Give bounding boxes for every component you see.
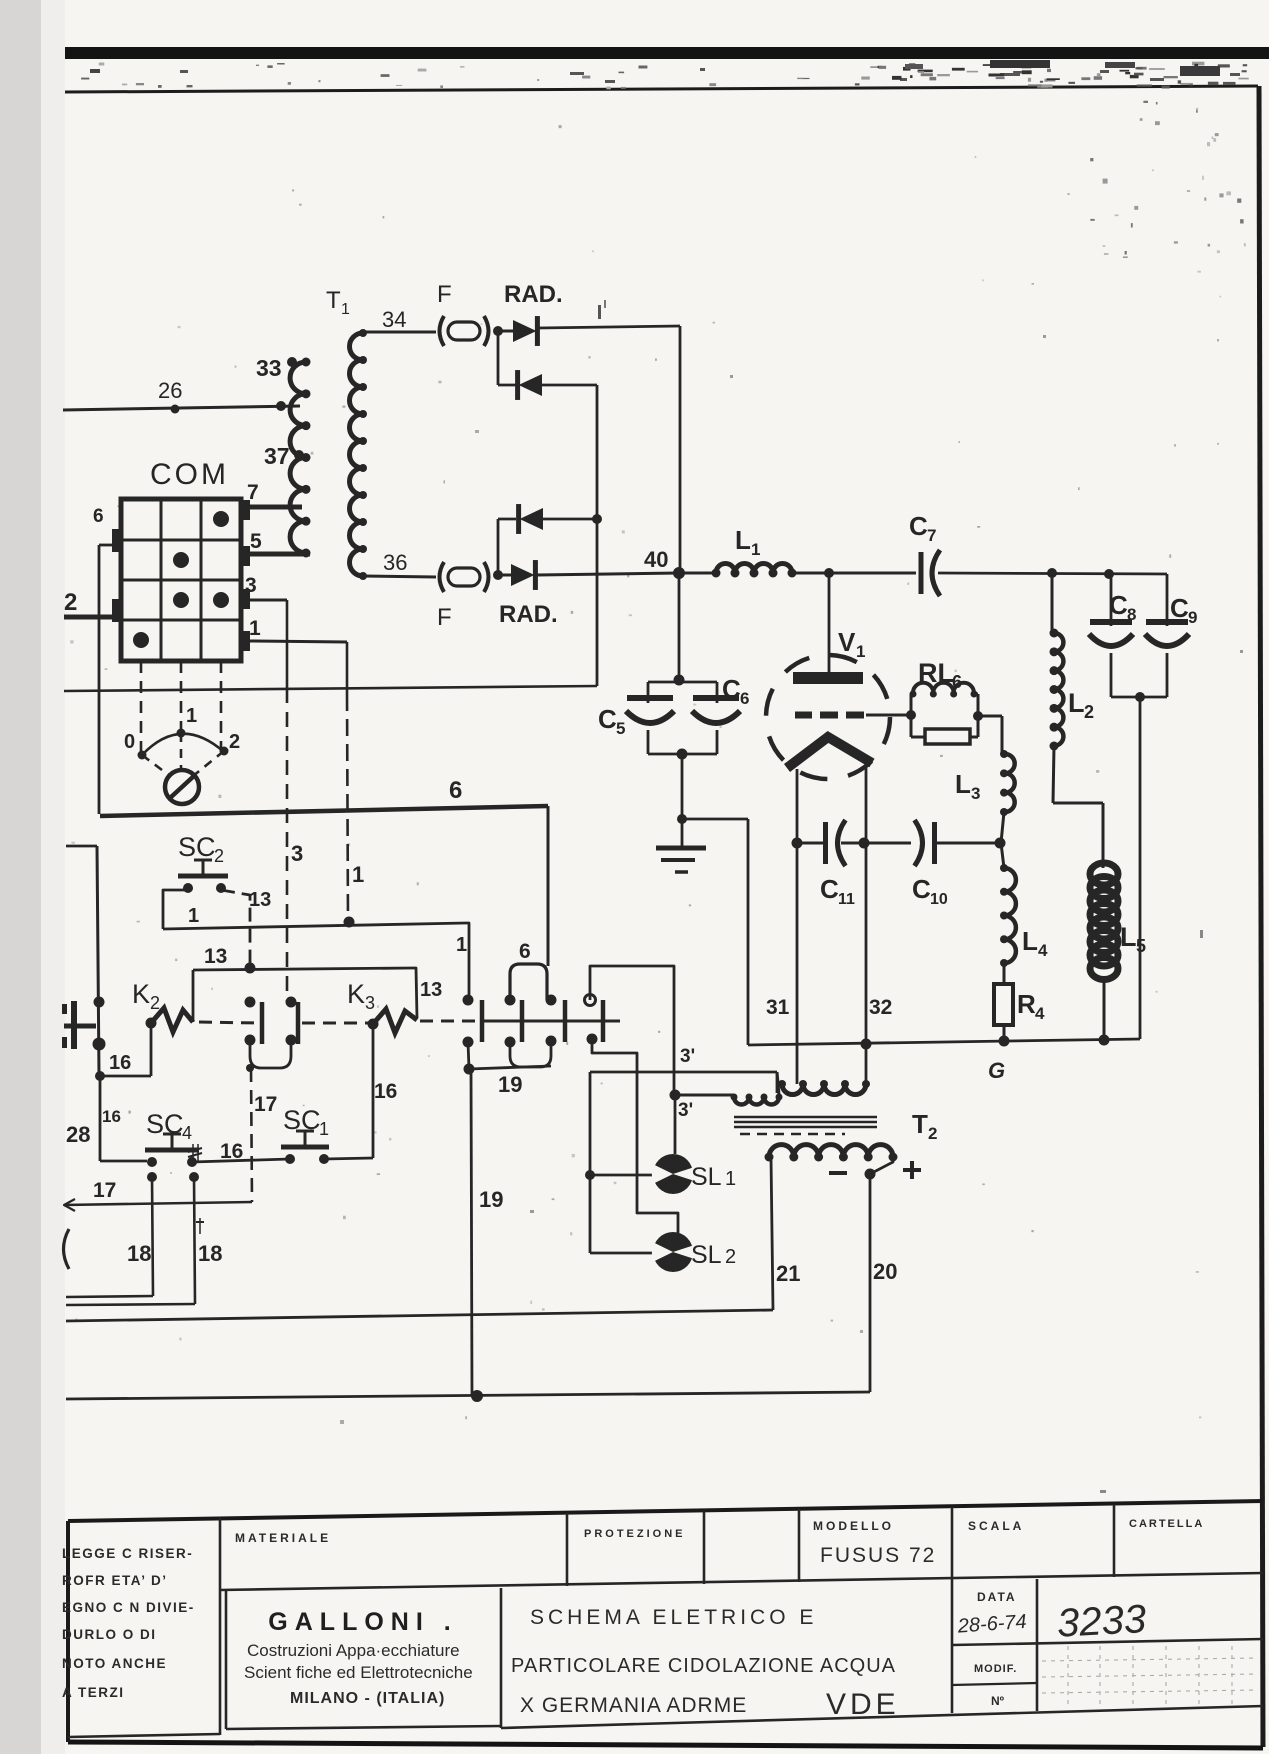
svg-text:1: 1 [751, 540, 760, 559]
svg-text:2: 2 [229, 731, 240, 753]
svg-text:1: 1 [186, 705, 197, 727]
svg-text:1: 1 [319, 1119, 329, 1139]
svg-text:31: 31 [766, 996, 790, 1019]
svg-text:1: 1 [341, 301, 350, 318]
svg-text:PROTEZIONE: PROTEZIONE [584, 1528, 686, 1540]
svg-text:L: L [735, 525, 751, 555]
svg-text:6: 6 [740, 689, 749, 708]
svg-text:19: 19 [479, 1187, 503, 1212]
svg-text:RAD.: RAD. [499, 601, 558, 628]
svg-text:5: 5 [616, 719, 625, 738]
svg-text:T: T [326, 287, 341, 314]
svg-text:34: 34 [382, 307, 406, 332]
svg-text:7: 7 [927, 526, 936, 545]
svg-text:36: 36 [383, 550, 407, 575]
svg-text:16: 16 [374, 1080, 397, 1103]
svg-text:A TERZI: A TERZI [62, 1685, 125, 1700]
svg-text:28: 28 [66, 1122, 90, 1147]
svg-text:3233: 3233 [1056, 1597, 1147, 1646]
svg-text:K: K [347, 979, 365, 1009]
svg-text:32: 32 [869, 996, 892, 1019]
svg-text:1: 1 [456, 934, 467, 956]
svg-text:20: 20 [873, 1259, 897, 1284]
svg-text:LEGGE C RISER-: LEGGE C RISER- [62, 1546, 193, 1561]
svg-text:3: 3 [971, 784, 980, 803]
svg-text:F: F [437, 604, 452, 631]
svg-text:6: 6 [449, 777, 462, 804]
svg-text:11: 11 [838, 891, 855, 908]
svg-text:SCALA: SCALA [968, 1519, 1024, 1533]
svg-text:SCHEMA ELETRICO E: SCHEMA ELETRICO E [530, 1606, 817, 1629]
svg-text:8: 8 [1127, 605, 1136, 624]
svg-text:2: 2 [928, 1124, 937, 1143]
svg-text:2: 2 [1084, 702, 1094, 722]
svg-text:17: 17 [254, 1093, 277, 1116]
svg-text:3': 3' [678, 1100, 693, 1121]
svg-text:6: 6 [952, 672, 962, 692]
svg-text:9: 9 [1188, 608, 1197, 627]
svg-text:V: V [838, 627, 856, 657]
svg-text:RAD.: RAD. [504, 281, 563, 308]
svg-text:RL: RL [918, 658, 954, 688]
svg-text:37: 37 [264, 443, 290, 469]
svg-text:3: 3 [291, 841, 303, 866]
svg-text:40: 40 [644, 547, 668, 572]
svg-text:C: C [598, 704, 617, 734]
svg-text:Scient fiche ed Elettrotecnich: Scient fiche ed Elettrotecniche [244, 1663, 473, 1682]
svg-text:2: 2 [150, 993, 160, 1013]
svg-text:Costruzioni Appa·ecchiature: Costruzioni Appa·ecchiature [247, 1641, 460, 1660]
svg-text:GALLONI .: GALLONI . [268, 1608, 457, 1636]
svg-text:SC: SC [178, 832, 216, 862]
svg-text:19: 19 [498, 1072, 522, 1097]
svg-text:13: 13 [420, 979, 442, 1001]
svg-text:4: 4 [182, 1123, 192, 1143]
svg-text:C: C [1170, 593, 1189, 623]
svg-text:3: 3 [245, 574, 257, 597]
svg-text:MILANO - (ITALIA): MILANO - (ITALIA) [290, 1690, 445, 1707]
svg-text:CARTELLA: CARTELLA [1129, 1518, 1204, 1530]
svg-text:MODIF.: MODIF. [974, 1663, 1017, 1675]
svg-text:FUSUS 72: FUSUS 72 [820, 1544, 936, 1567]
svg-text:L: L [1120, 922, 1137, 952]
svg-text:2: 2 [64, 589, 77, 616]
svg-text:COM: COM [150, 458, 229, 491]
svg-text:16: 16 [102, 1107, 121, 1126]
svg-text:10: 10 [930, 891, 948, 908]
svg-text:1: 1 [725, 1168, 736, 1190]
svg-text:4: 4 [1035, 1004, 1045, 1023]
svg-text:C: C [909, 511, 928, 541]
svg-text:R: R [1017, 989, 1036, 1019]
svg-text:5: 5 [1136, 936, 1146, 956]
svg-text:6: 6 [93, 506, 104, 527]
svg-text:33: 33 [256, 355, 282, 381]
svg-text:13: 13 [204, 945, 227, 968]
svg-text:21: 21 [776, 1261, 800, 1286]
svg-text:13: 13 [249, 889, 271, 911]
svg-text:2: 2 [214, 846, 224, 866]
svg-text:C: C [912, 874, 931, 904]
svg-text:4: 4 [1038, 941, 1048, 960]
svg-text:MATERIALE: MATERIALE [235, 1531, 331, 1545]
svg-text:Nº: Nº [991, 1694, 1005, 1708]
svg-text:G: G [988, 1058, 1005, 1083]
svg-text:3: 3 [365, 993, 375, 1013]
svg-text:NOTO ANCHE: NOTO ANCHE [62, 1656, 167, 1671]
svg-text:T: T [912, 1109, 928, 1139]
svg-text:L: L [1068, 688, 1085, 718]
svg-text:MODELLO: MODELLO [813, 1519, 894, 1533]
svg-text:VDE: VDE [826, 1688, 900, 1721]
svg-text:3': 3' [680, 1046, 695, 1067]
svg-text:DATA: DATA [977, 1590, 1017, 1604]
svg-text:C: C [820, 874, 839, 904]
svg-text:18: 18 [127, 1241, 151, 1266]
svg-text:ROFR ETA’ D’: ROFR ETA’ D’ [62, 1573, 168, 1588]
svg-text:7: 7 [247, 481, 259, 504]
svg-text:5: 5 [250, 530, 262, 553]
svg-text:SL: SL [691, 1241, 722, 1269]
svg-text:DURLO O DI: DURLO O DI [62, 1627, 157, 1642]
svg-text:26: 26 [158, 378, 182, 403]
svg-text:1: 1 [249, 617, 261, 640]
svg-text:K: K [132, 979, 150, 1009]
svg-text:EGNO C N DIVIE-: EGNO C N DIVIE- [62, 1600, 195, 1615]
svg-text:18: 18 [198, 1241, 222, 1266]
svg-text:PARTICOLARE CIDOLAZIONE ACQU: PARTICOLARE CIDOLAZIONE ACQUA [511, 1655, 896, 1677]
svg-text:C: C [1109, 590, 1128, 620]
svg-text:L: L [1022, 926, 1038, 956]
svg-text:16: 16 [109, 1052, 131, 1074]
svg-text:0: 0 [124, 731, 135, 753]
svg-text:C: C [722, 674, 741, 704]
svg-text:L: L [955, 769, 971, 799]
svg-text:SL: SL [691, 1163, 722, 1191]
svg-text:17: 17 [93, 1179, 116, 1202]
svg-text:F: F [437, 281, 452, 308]
svg-text:6: 6 [519, 940, 531, 963]
svg-text:1: 1 [856, 642, 865, 661]
svg-text:2: 2 [725, 1246, 736, 1268]
svg-text:X GERMANIA ADRME: X GERMANIA ADRME [520, 1694, 747, 1717]
svg-text:1: 1 [188, 905, 199, 927]
svg-text:1: 1 [352, 862, 364, 887]
